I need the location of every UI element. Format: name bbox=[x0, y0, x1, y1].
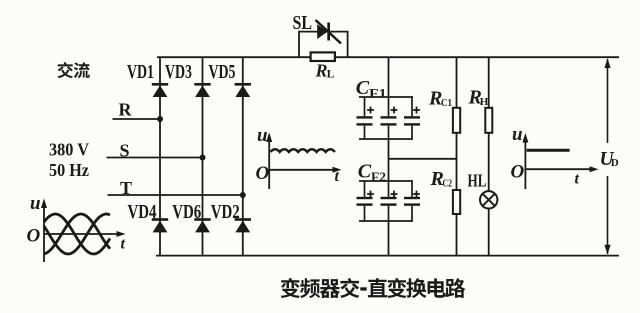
thyristor SL bbox=[316, 20, 342, 44]
dimension arrow UD bbox=[604, 58, 610, 254]
svg-text:O: O bbox=[256, 163, 270, 184]
wire: CF midpoint to RC midpoint bbox=[389, 158, 457, 160]
svg-text:O: O bbox=[511, 162, 525, 183]
wire: CF column top bbox=[388, 57, 390, 97]
waveform: ripple bbox=[271, 149, 335, 152]
svg-text:u: u bbox=[257, 125, 268, 146]
svg-text:R: R bbox=[315, 61, 328, 81]
waveform plot: three-phase AC input axes bbox=[41, 199, 126, 263]
diode VD1 bbox=[152, 83, 168, 97]
svg-text:S: S bbox=[120, 140, 130, 160]
resistor RH bbox=[485, 108, 492, 133]
wire: phase S input bbox=[107, 157, 203, 159]
svg-text:C: C bbox=[358, 161, 372, 183]
svg-text:t: t bbox=[121, 236, 126, 253]
wire: RC column bbox=[456, 57, 458, 255]
waveform: DC level bbox=[527, 149, 570, 152]
svg-text:D: D bbox=[611, 157, 619, 169]
svg-text:C2: C2 bbox=[443, 178, 453, 190]
diode VD2 bbox=[235, 218, 251, 232]
svg-text:O: O bbox=[27, 226, 41, 247]
svg-text:u: u bbox=[30, 193, 41, 214]
waveform plot: DC output axes bbox=[522, 133, 598, 189]
svg-text:R: R bbox=[119, 100, 133, 120]
svg-text:VD4: VD4 bbox=[128, 201, 157, 223]
svg-text:F2: F2 bbox=[371, 170, 386, 184]
wire: SL bypass loop bbox=[299, 32, 348, 58]
wire: phase T input bbox=[108, 194, 243, 196]
label: 交流 (AC) bbox=[57, 62, 73, 78]
capacitor bank CF2 bbox=[357, 181, 421, 221]
wire: phase R input bbox=[113, 118, 161, 120]
wire: bottom DC- rail bbox=[156, 255, 619, 257]
svg-text:HL: HL bbox=[468, 171, 487, 191]
svg-text:VD6: VD6 bbox=[172, 201, 201, 223]
svg-text:VD5: VD5 bbox=[209, 61, 236, 83]
wire: VD1/VD4 column bbox=[159, 57, 161, 255]
wire: CF column middle bbox=[388, 139, 390, 181]
node: S junction bbox=[200, 155, 206, 161]
svg-text:VD3: VD3 bbox=[165, 61, 192, 83]
caption: 变频器交-直变换电路 bbox=[281, 278, 466, 298]
svg-text:C1: C1 bbox=[441, 97, 452, 109]
waveform plot: rectified output axes bbox=[266, 133, 341, 190]
svg-text:VD2: VD2 bbox=[211, 201, 240, 223]
svg-text:380 V: 380 V bbox=[49, 140, 89, 160]
lamp HL bbox=[480, 191, 497, 208]
resistor RC1 bbox=[453, 108, 460, 133]
svg-text:50 Hz: 50 Hz bbox=[49, 160, 89, 180]
svg-text:C: C bbox=[356, 77, 370, 99]
svg-text:VD1: VD1 bbox=[127, 61, 154, 83]
diode VD4 bbox=[152, 218, 168, 232]
svg-text:u: u bbox=[512, 124, 523, 145]
wire: VD3/VD6 column bbox=[202, 57, 204, 255]
capacitor bank CF1 bbox=[357, 97, 421, 139]
svg-text:t: t bbox=[575, 171, 580, 188]
diode VD6 bbox=[194, 218, 210, 232]
wire: top DC+ rail bbox=[157, 56, 619, 58]
resistor RC2 bbox=[453, 190, 460, 214]
diode VD5 bbox=[235, 83, 251, 97]
node: T junction bbox=[240, 192, 246, 198]
svg-text:F1: F1 bbox=[369, 87, 387, 101]
svg-text:L: L bbox=[327, 69, 335, 81]
waveform: three-phase sines bbox=[44, 214, 110, 254]
svg-text:t: t bbox=[335, 168, 340, 185]
wire: CF column bottom bbox=[388, 221, 390, 256]
svg-text:T: T bbox=[120, 178, 132, 198]
diode VD3 bbox=[194, 83, 210, 97]
wire: RH/HL column bbox=[488, 57, 490, 191]
wire: VD5/VD2 column bbox=[242, 57, 244, 255]
svg-text:H: H bbox=[480, 96, 489, 108]
node: R junction bbox=[157, 116, 163, 122]
resistor RL bbox=[311, 52, 335, 61]
svg-text:SL: SL bbox=[293, 12, 313, 34]
